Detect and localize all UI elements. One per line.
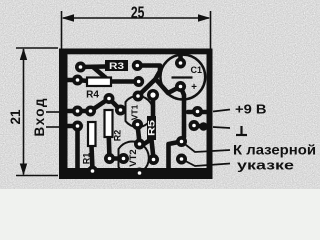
pad C1 plus top xyxy=(175,58,186,69)
wire E to left bus xyxy=(66,124,78,129)
wire R3 right hook xyxy=(138,66,161,79)
svg-text:указке: указке xyxy=(237,158,294,173)
wire R4 right to pad H xyxy=(110,79,139,84)
svg-text:R2: R2 xyxy=(113,130,123,142)
pad VT2-M xyxy=(118,153,129,164)
wire R2 bottom xyxy=(107,137,112,159)
svg-text:+: + xyxy=(191,82,197,93)
resistor R3 body xyxy=(105,60,128,71)
wire B to left bus xyxy=(66,78,78,83)
pad out1 xyxy=(176,136,187,147)
pad H xyxy=(133,76,144,87)
pad E xyxy=(72,121,83,132)
wire A diagonal to R4 right xyxy=(93,67,110,82)
transistor VT2 outline xyxy=(119,142,149,175)
pad R1 bottom xyxy=(87,166,98,177)
pad C xyxy=(72,106,83,117)
pad VT2-P bottom xyxy=(134,168,145,179)
wire VT2 pads L-M xyxy=(110,156,124,161)
wire R5 top pad down xyxy=(151,95,156,116)
pad VT2-O xyxy=(148,154,159,165)
svg-text:С1: С1 xyxy=(191,65,203,75)
svg-text:R5: R5 xyxy=(147,120,157,136)
svg-text:25: 25 xyxy=(131,3,145,22)
pad holes xyxy=(76,61,200,175)
dimension 21 (left) xyxy=(16,48,58,176)
pad B xyxy=(72,75,83,86)
dimension 25 (top) xyxy=(62,11,211,49)
pad +9V xyxy=(192,106,203,117)
wire pad1 L-shape to bottom bus xyxy=(169,142,182,171)
pad D (R1 top) xyxy=(85,106,96,117)
wire out2 to laser label xyxy=(182,159,231,166)
wire C1 bottom down to pad1 xyxy=(181,87,185,142)
capacitor C1 minus bar xyxy=(172,76,193,78)
label +9V with tick xyxy=(213,110,230,112)
wire R5 bottom to VT2 xyxy=(141,139,152,146)
wire A to R3 left xyxy=(81,64,106,69)
wire +9V pad to edge xyxy=(188,110,208,115)
wire E down to bottom bus xyxy=(75,126,80,170)
pad R3 right xyxy=(132,60,143,71)
pad A xyxy=(75,62,86,73)
arrowhead bottom of 21 dim xyxy=(20,164,27,176)
wire out1 to laser label xyxy=(182,142,231,167)
pads xyxy=(72,58,208,179)
svg-text:R3: R3 xyxy=(109,61,124,71)
label ground symbol with tick xyxy=(213,127,230,128)
pad F (R2 top) xyxy=(104,93,115,104)
arrowhead left of 25 dim xyxy=(62,14,75,21)
wire B to R4 left xyxy=(78,80,89,81)
wire gnd pads to edge xyxy=(194,126,208,127)
wire F to VT1 base xyxy=(109,99,121,111)
wire D to F xyxy=(91,99,110,112)
input tick 1 xyxy=(46,111,60,113)
capacitor C1 outline xyxy=(160,55,205,100)
wire VT1 collector down xyxy=(138,125,140,144)
resistor R4 body xyxy=(87,78,111,87)
input tick 2 xyxy=(46,126,60,128)
resistor R1 body xyxy=(88,122,96,146)
resistor R2 body xyxy=(105,110,113,137)
wire C1 top to bus xyxy=(178,52,183,63)
pad R2 bottom / VT2 left xyxy=(104,153,115,164)
pad VT1 base xyxy=(115,105,126,116)
pad VT1 emitter xyxy=(133,91,144,102)
svg-text:VT1: VT1 xyxy=(130,104,140,120)
svg-text:+9 В: +9 В xyxy=(235,102,267,117)
transistor VT1 outline xyxy=(126,96,154,127)
svg-text:VT2: VT2 xyxy=(128,149,139,166)
pad gnd xyxy=(189,120,200,131)
arrowhead top of 21 dim xyxy=(20,48,27,60)
svg-text:Вход: Вход xyxy=(32,98,47,136)
svg-text:К лазерной: К лазерной xyxy=(233,143,316,158)
arrowhead right of 25 dim xyxy=(198,14,211,21)
traces xyxy=(66,52,208,170)
pad VT2-N xyxy=(134,139,145,150)
pad VT1 collector xyxy=(132,119,143,130)
pad C1 minus bottom xyxy=(175,81,186,92)
svg-text:R1: R1 xyxy=(82,153,92,165)
resistor R5 body xyxy=(147,116,156,140)
wire peak VT1 to C1 xyxy=(138,79,181,96)
wire bus to C to D xyxy=(66,109,91,114)
pad out2 xyxy=(176,154,187,165)
svg-text:R4: R4 xyxy=(86,90,99,101)
pad R5 top xyxy=(147,89,159,101)
board outline xyxy=(59,49,213,180)
junction gnd xyxy=(199,122,208,131)
wire R1 bottom xyxy=(92,146,93,170)
svg-text:21: 21 xyxy=(7,109,23,124)
wire R5 bottom to VT2-O xyxy=(152,140,154,159)
